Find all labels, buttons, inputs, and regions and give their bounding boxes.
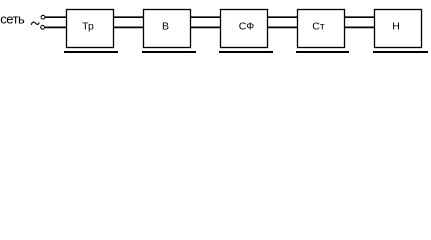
svg-text:Тр: Тр xyxy=(82,21,94,33)
svg-text:сеть: сеть xyxy=(0,11,25,26)
svg-text:СФ: СФ xyxy=(239,21,255,33)
svg-text:Ст: Ст xyxy=(312,21,325,33)
svg-text:В: В xyxy=(162,21,169,33)
svg-text:Н: Н xyxy=(392,21,400,33)
